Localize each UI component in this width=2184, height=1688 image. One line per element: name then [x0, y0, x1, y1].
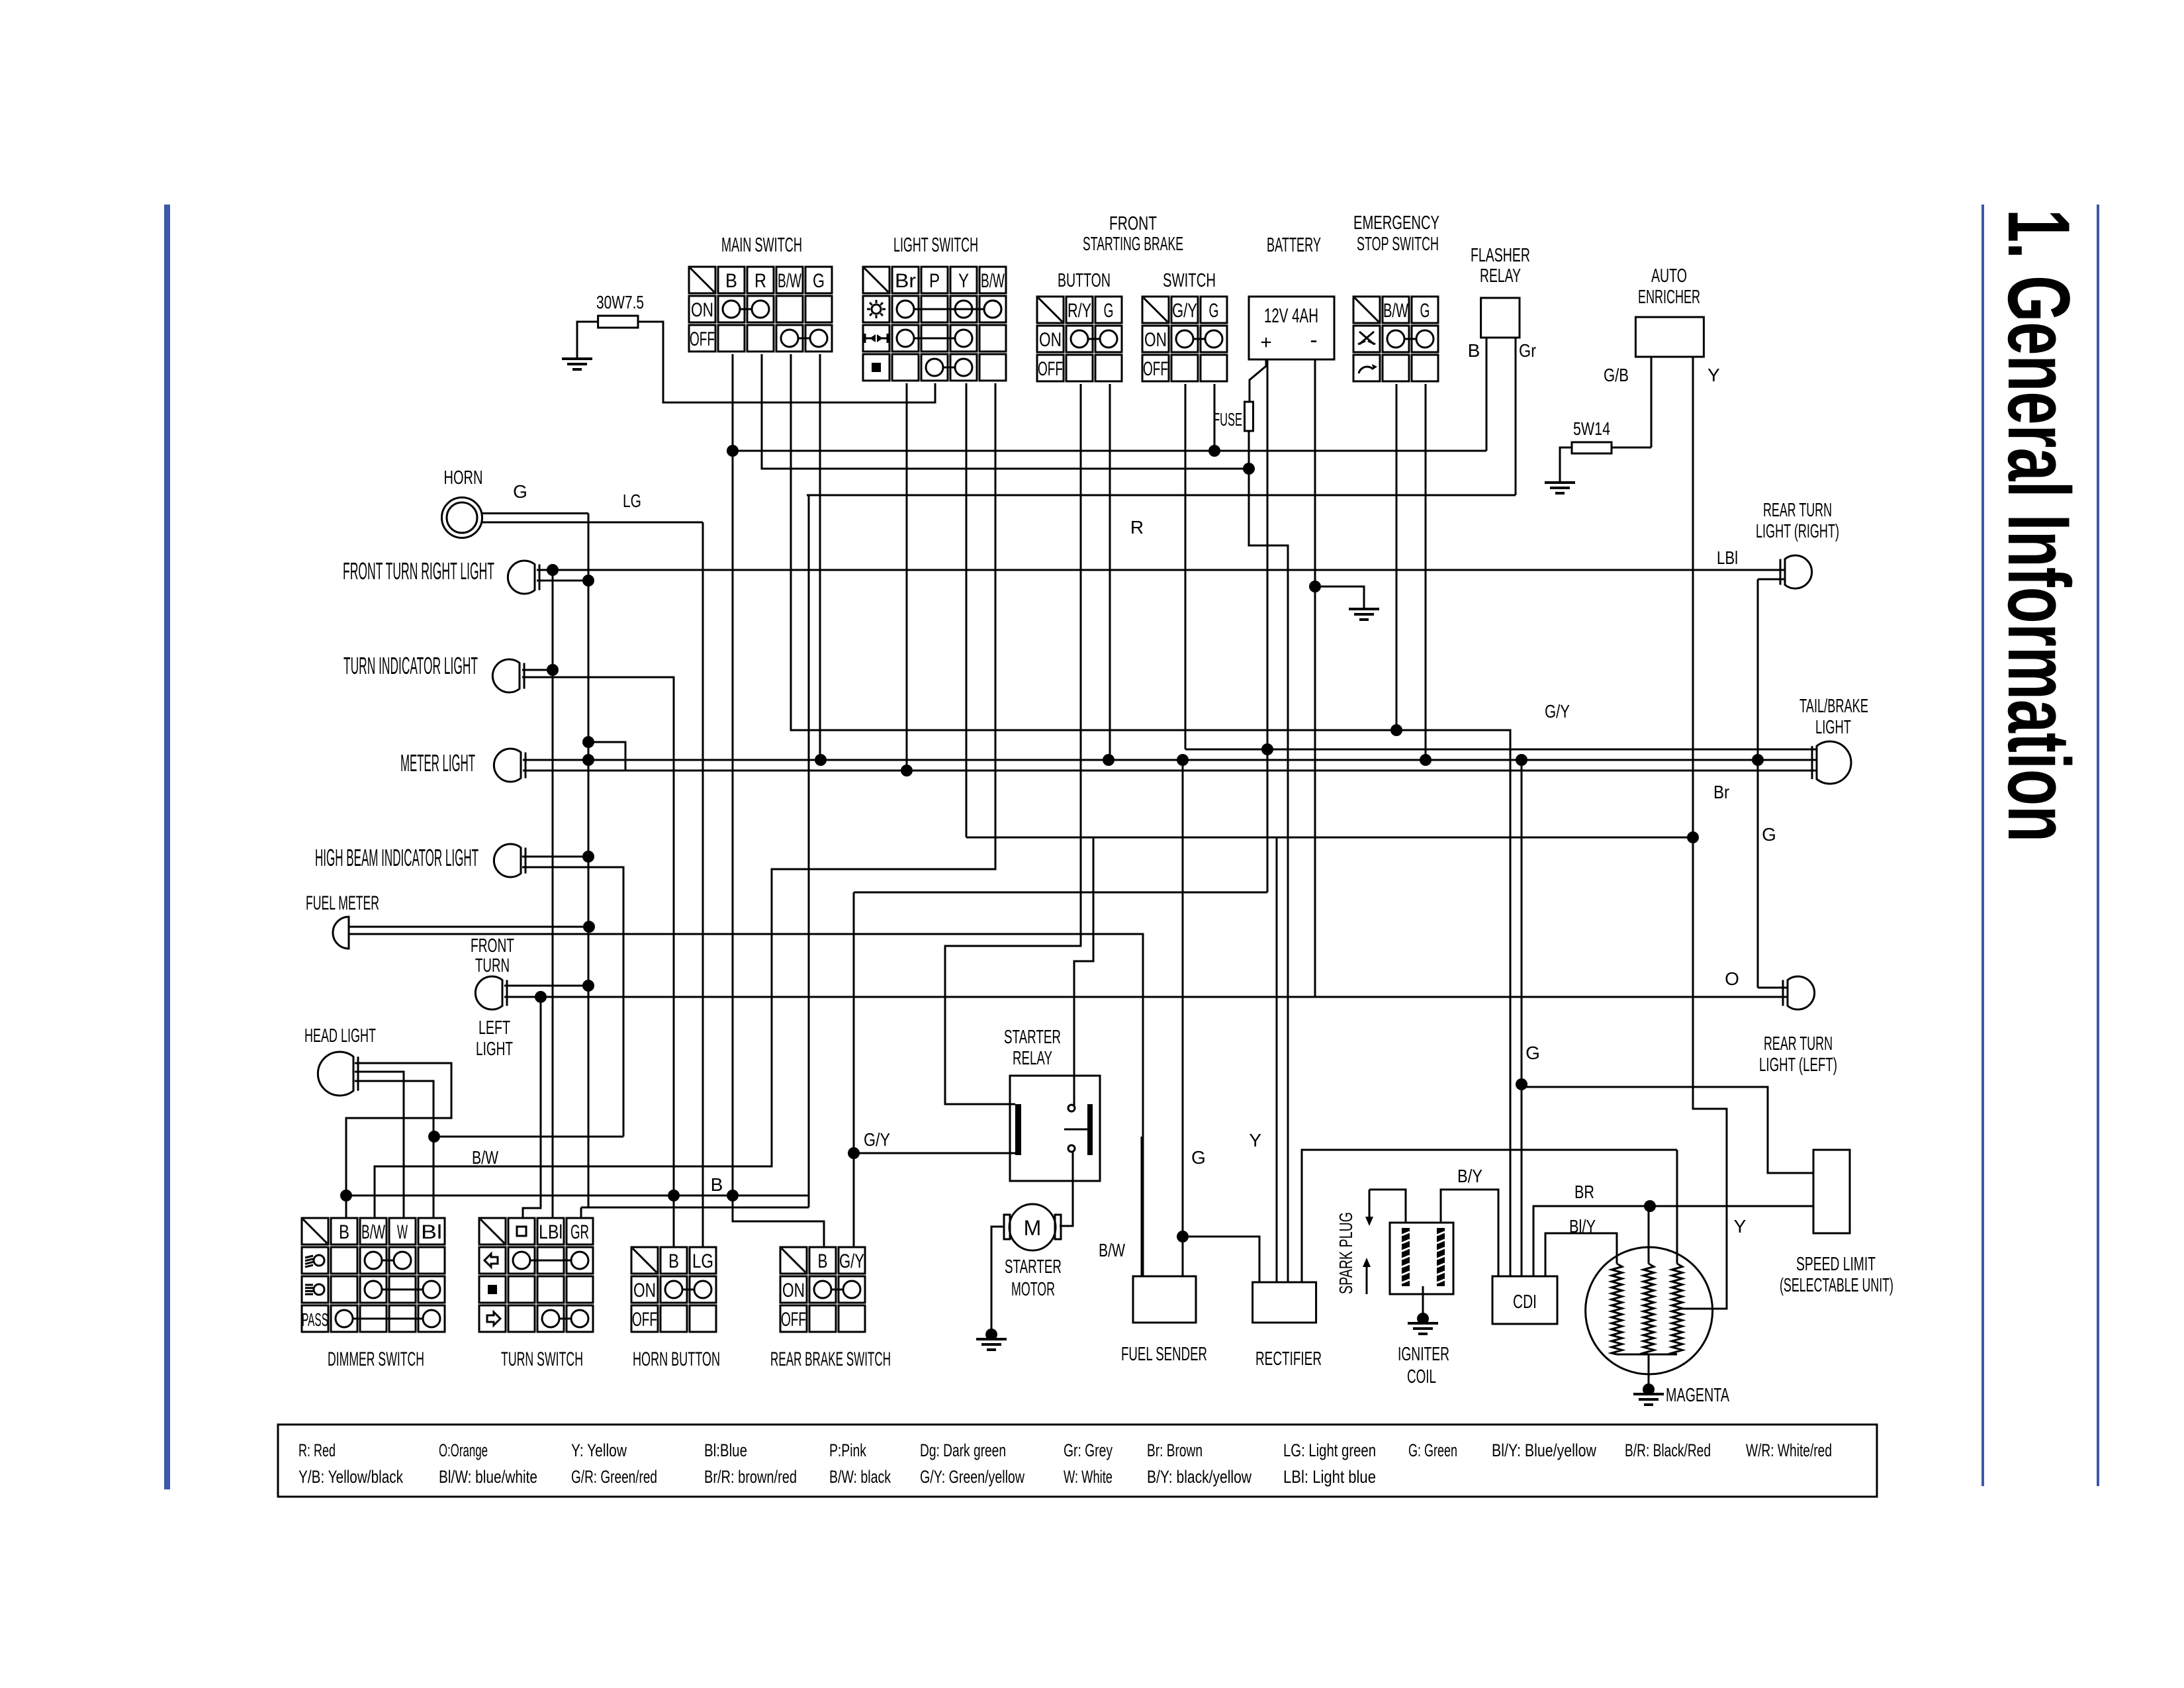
resistor 30W7.5 [598, 316, 638, 328]
svg-text:G: G [1104, 300, 1114, 322]
svg-text:G: Green: G: Green [1408, 1440, 1457, 1460]
wire B/W run to dimmer Bl [434, 1136, 623, 1138]
svg-text:ON: ON [782, 1280, 805, 1301]
svg-text:30W7.5: 30W7.5 [596, 292, 644, 312]
svg-text:FUSE: FUSE [1213, 409, 1242, 430]
wire Y run to rectifier right [1302, 1150, 1677, 1282]
ground at igniter coil [1408, 1322, 1438, 1325]
svg-text:Y: Y [1249, 1130, 1261, 1150]
starter relay box [1010, 1076, 1100, 1181]
starter relay contact bar [1087, 1104, 1093, 1155]
svg-text:+: + [1260, 332, 1272, 353]
svg-text:ON: ON [691, 299, 713, 321]
svg-text:R: R [754, 270, 766, 292]
svg-text:B: B [818, 1250, 828, 1272]
wire 5W14 left to ground [1560, 447, 1572, 481]
igniter coil windings [1402, 1228, 1410, 1286]
head light bulb [318, 1052, 353, 1096]
svg-text:Br: Br [1713, 782, 1729, 802]
wire head light t1 to dimmer B [346, 1063, 451, 1218]
tail brake light bulb [1817, 741, 1851, 784]
ground at starter motor [976, 1338, 1007, 1340]
wire magneto to ground [1648, 1354, 1650, 1389]
wire cdi G with branch [1521, 767, 1523, 1276]
svg-text:O: O [1725, 968, 1739, 989]
svg-text:LBl: Light blue: LBl: Light blue [1283, 1467, 1376, 1487]
wire 30W7.5 right to light switch P column [638, 322, 935, 402]
svg-text:B/W: B/W [1099, 1240, 1125, 1260]
wire head light t3 to dimmer Bl [355, 1081, 433, 1218]
high beam indicator light bulb [494, 844, 521, 877]
svg-text:G/Y: G/Y [1545, 701, 1570, 722]
wire O run [504, 996, 1788, 998]
wire G vertical from horn [588, 514, 590, 1208]
svg-text:LBl: LBl [1717, 547, 1738, 568]
spark gap lower arrow [1366, 1266, 1368, 1294]
wire meter jog [588, 742, 625, 771]
wire emergency G column [1425, 384, 1427, 760]
svg-text:W: W [397, 1221, 408, 1243]
wire battery minus [1314, 359, 1316, 997]
wire turn-feed vertical x1222 [808, 495, 810, 1207]
svg-text:LIGHT (LEFT): LIGHT (LEFT) [1759, 1055, 1837, 1076]
svg-text:HORN: HORN [444, 467, 483, 489]
svg-text:SPEED LIMIT: SPEED LIMIT [1796, 1254, 1876, 1275]
light switch table [863, 267, 889, 293]
svg-text:ON: ON [1039, 329, 1062, 351]
svg-text:Bl: Bl [421, 1221, 442, 1243]
wire button G column [1109, 384, 1111, 760]
wire cdi BR [1533, 1206, 1813, 1276]
svg-text:LG: LG [692, 1250, 713, 1272]
ground at 30W7.5 [562, 357, 592, 360]
svg-text:TAIL/BRAKE: TAIL/BRAKE [1799, 696, 1868, 717]
wire auto enricher Y pin to magneto [1678, 357, 1727, 1309]
svg-text:R/Y: R/Y [1068, 300, 1091, 322]
svg-text:5W14: 5W14 [1573, 418, 1610, 439]
ground at battery [1349, 608, 1379, 610]
wire battery plus diagonal to fuse [1250, 359, 1266, 402]
wire auto enricher G/B pin [1651, 357, 1653, 447]
wire Y to rectifier [1276, 837, 1278, 1282]
legend box [278, 1425, 1877, 1497]
svg-text:R: R [1130, 517, 1144, 538]
svg-text:OFF: OFF [690, 328, 715, 350]
wire igniter primary to spark gap [1369, 1190, 1406, 1223]
wire fuel sender G to rectifier [1183, 1237, 1259, 1282]
svg-text:B/W: B/W [981, 270, 1005, 292]
wire power run H2 [733, 450, 1486, 452]
svg-text:REAR TURN: REAR TURN [1764, 1033, 1833, 1055]
igniter coil box [1390, 1223, 1453, 1294]
horn [442, 498, 482, 538]
horn button table [631, 1247, 658, 1274]
svg-text:Br/R: brown/red: Br/R: brown/red [704, 1467, 797, 1487]
wire igniter secondary B/Y to CDI [1441, 1190, 1498, 1276]
svg-text:P: P [929, 270, 940, 292]
wire turn indicator bottom chain [522, 677, 674, 1247]
svg-text:STARTER: STARTER [1005, 1256, 1062, 1278]
wire 30W7.5 left to ground [577, 322, 598, 357]
wire battery plus to G/Y chain [854, 892, 1267, 894]
turn switch table [479, 1218, 506, 1244]
svg-text:GR: GR [570, 1221, 589, 1243]
wire starter relay contact top feed [1073, 1105, 1075, 1106]
wire GR column drop [580, 1207, 582, 1218]
svg-text:G: G [813, 270, 825, 292]
svg-text:FUEL METER: FUEL METER [306, 892, 379, 914]
starter relay contacts [1068, 1105, 1075, 1111]
svg-text:SPARK PLUG: SPARK PLUG [1336, 1212, 1356, 1294]
svg-text:LBl: LBl [539, 1221, 563, 1243]
svg-text:BR: BR [1574, 1182, 1594, 1202]
svg-text:B/W: B/W [472, 1147, 498, 1168]
wire emergency B/W column [1396, 384, 1398, 730]
wire turn switch square-col chain [504, 997, 541, 1218]
svg-text:G/B: G/B [1604, 365, 1629, 385]
svg-text:G: G [1209, 300, 1219, 322]
rear turn light right bulb [1785, 555, 1812, 588]
wire starter relay contact bottom to motor [1060, 1152, 1073, 1226]
svg-text:FRONT: FRONT [471, 935, 514, 957]
svg-text:LIGHT: LIGHT [476, 1039, 513, 1060]
svg-text:LIGHT SWITCH: LIGHT SWITCH [893, 233, 978, 256]
svg-text:B: B [725, 270, 737, 292]
svg-text:O:Orange: O:Orange [439, 1440, 488, 1460]
svg-text:G/R: Green/red: G/R: Green/red [571, 1467, 657, 1487]
wire igniter to ground [1422, 1286, 1424, 1319]
svg-text:LEFT: LEFT [478, 1017, 510, 1039]
svg-text:ON: ON [1144, 329, 1167, 351]
svg-text:(SELECTABLE UNIT): (SELECTABLE UNIT) [1780, 1275, 1893, 1296]
svg-text:RELAY: RELAY [1013, 1048, 1052, 1069]
wire LBl run front to rear [537, 569, 1784, 571]
fuel meter symbol [333, 917, 349, 949]
svg-text:OFF: OFF [632, 1309, 657, 1331]
left blue sidebar line [164, 205, 170, 1489]
svg-text:B: B [339, 1221, 349, 1243]
wire light switch Br column [906, 383, 908, 771]
wire G to rear turn left [1758, 987, 1787, 989]
svg-text:Y: Y [1734, 1216, 1747, 1237]
svg-text:B/R: Black/Red: B/R: Black/Red [1625, 1440, 1711, 1460]
right blue rule (inner) [1981, 205, 1984, 1486]
svg-text:LG: Light green: LG: Light green [1283, 1440, 1376, 1460]
svg-text:TURN SWITCH: TURN SWITCH [501, 1348, 583, 1370]
svg-text:Y: Yellow: Y: Yellow [571, 1440, 627, 1460]
turn indicator light bulb [492, 659, 520, 692]
svg-text:G: G [1525, 1043, 1540, 1063]
resistor 5W14 [1572, 442, 1612, 453]
svg-text:G/Y: G/Y [839, 1250, 864, 1272]
wire front turn left top stub [504, 985, 588, 987]
svg-text:FUEL SENDER: FUEL SENDER [1121, 1344, 1207, 1365]
wire flasher Gr run [807, 494, 1516, 496]
rear turn light left bulb [1788, 976, 1815, 1009]
wire high beam top stub [522, 856, 588, 858]
svg-text:1. General Information: 1. General Information [1989, 209, 2087, 842]
front turn left light bulb [475, 976, 502, 1009]
svg-text:Bl/Y: Blue/yellow: Bl/Y: Blue/yellow [1492, 1440, 1596, 1460]
wire LG vertical to horn button [702, 522, 704, 1247]
wire battery minus ground branch [1315, 586, 1364, 608]
wire main switch B/W column kill run [791, 354, 1510, 1276]
wire horn G stub [482, 512, 588, 514]
svg-text:RELAY: RELAY [1480, 265, 1521, 287]
svg-text:Dg: Dark green: Dg: Dark green [920, 1440, 1006, 1460]
svg-text:G: G [1420, 300, 1430, 322]
svg-text:SWITCH: SWITCH [1163, 270, 1216, 291]
emergency stop switch table [1353, 297, 1380, 323]
wire cdi B/Y right [1545, 1233, 1617, 1276]
svg-text:REAR BRAKE SWITCH: REAR BRAKE SWITCH [770, 1348, 891, 1370]
svg-text:G/Y: G/Y [864, 1129, 890, 1150]
meter light bulb [494, 749, 521, 782]
svg-text:STOP SWITCH: STOP SWITCH [1357, 234, 1439, 255]
svg-text:G: G [1762, 824, 1776, 845]
wire flasher B pin [1486, 338, 1488, 451]
wire head light t2 to dimmer W [355, 1072, 404, 1218]
svg-text:LG: LG [623, 491, 641, 511]
svg-text:B/W: B/W [1383, 300, 1408, 322]
wire cdi G long [1510, 767, 1512, 1276]
svg-text:PASS: PASS [302, 1309, 328, 1330]
wire G/Y to starter relay coil [854, 1152, 1017, 1154]
front starting brake button table [1037, 297, 1064, 323]
fuel sender box [1133, 1276, 1196, 1323]
battery box [1249, 297, 1334, 359]
svg-text:COIL: COIL [1407, 1366, 1436, 1387]
ground at magneto [1633, 1393, 1664, 1395]
svg-text:Y: Y [1707, 365, 1720, 385]
svg-text:MOTOR: MOTOR [1011, 1279, 1055, 1300]
svg-text:EMERGENCY: EMERGENCY [1353, 212, 1439, 234]
wire speed limit upper feed [1522, 1087, 1813, 1173]
svg-text:P:Pink: P:Pink [829, 1440, 866, 1460]
junction dot igniter ground [1417, 1313, 1429, 1325]
svg-text:W/R: White/red: W/R: White/red [1746, 1440, 1832, 1460]
svg-text:Gr: Grey: Gr: Grey [1064, 1440, 1113, 1460]
wire main switch B column [733, 354, 824, 1247]
spark gap upper arrow [1369, 1190, 1371, 1218]
wire battery plus down [1267, 359, 1269, 892]
svg-text:Bl/W: blue/white: Bl/W: blue/white [439, 1467, 537, 1487]
magneto coils [1612, 1264, 1622, 1354]
wire turn indicator top stub [522, 669, 553, 671]
wire fuel sender B/W pin [1141, 1137, 1143, 1276]
wire fuel meter upper stub [349, 926, 589, 928]
wire rear turn right second terminal [1758, 579, 1784, 581]
svg-text:B/Y: black/yellow: B/Y: black/yellow [1147, 1467, 1251, 1487]
wire GR jog [581, 1207, 809, 1209]
fuse [1245, 402, 1253, 431]
ground at 5W14 [1545, 481, 1575, 484]
svg-text:FLASHER: FLASHER [1471, 245, 1530, 266]
auto enricher box [1635, 317, 1704, 357]
svg-text:ON: ON [633, 1280, 656, 1301]
svg-text:G: G [513, 481, 527, 502]
wire light switch Y column [966, 383, 968, 837]
svg-text:B/W: black: B/W: black [829, 1467, 891, 1487]
wire G run mid [1521, 760, 1523, 1084]
svg-text:STARTER: STARTER [1004, 1027, 1061, 1048]
svg-text:LIGHT (RIGHT): LIGHT (RIGHT) [1756, 521, 1839, 542]
wire switch G column [1214, 384, 1216, 451]
svg-text:Br: Brown: Br: Brown [1147, 1440, 1203, 1460]
svg-text:B: B [711, 1174, 723, 1195]
wire switch G/Y column [1185, 384, 1187, 749]
wire horn LG stub [482, 522, 703, 524]
svg-text:G: G [1191, 1147, 1206, 1168]
svg-text:TURN INDICATOR LIGHT: TURN INDICATOR LIGHT [343, 652, 478, 679]
svg-text:W: White: W: White [1064, 1467, 1113, 1487]
svg-text:12V 4AH: 12V 4AH [1264, 304, 1318, 327]
svg-text:G/Y: Green/yellow: G/Y: Green/yellow [920, 1467, 1024, 1487]
front brake switch table [1142, 297, 1169, 323]
svg-text:REAR TURN: REAR TURN [1763, 500, 1832, 521]
wire fuse chain down to rectifier [1249, 431, 1288, 1282]
wire main switch R column [762, 354, 1249, 469]
wire light switch B/W chain [375, 383, 995, 1218]
cdi box [1492, 1276, 1557, 1324]
wire G run [523, 759, 1816, 761]
wire B run bottom [346, 1195, 809, 1197]
svg-text:B/W: B/W [778, 270, 801, 292]
svg-text:Gr: Gr [1519, 340, 1536, 361]
wire flasher Gr pin [1515, 338, 1517, 495]
main switch table [689, 267, 715, 293]
starter motor [1009, 1204, 1056, 1250]
rectifier box [1253, 1282, 1316, 1323]
svg-text:B: B [668, 1250, 679, 1272]
wire Br run to tail light [523, 770, 1816, 772]
wire front turn right bottom stub [537, 580, 588, 582]
svg-text:FRONT: FRONT [1109, 213, 1157, 234]
svg-text:ENRICHER: ENRICHER [1638, 287, 1700, 308]
svg-text:HIGH BEAM INDICATOR LIGHT: HIGH BEAM INDICATOR LIGHT [315, 844, 478, 871]
svg-text:HORN BUTTON: HORN BUTTON [633, 1348, 720, 1370]
wire LBl vertical [552, 570, 554, 1218]
magneto circle [1586, 1247, 1713, 1374]
svg-text:LIGHT: LIGHT [1815, 717, 1851, 738]
rear brake switch table [780, 1247, 807, 1274]
wire starter motor to ground [991, 1227, 1004, 1335]
svg-text:DIMMER SWITCH: DIMMER SWITCH [328, 1348, 424, 1370]
svg-text:BUTTON: BUTTON [1058, 270, 1111, 291]
wire 5W14 right to G/B [1612, 447, 1651, 449]
wire magneto mid coil up to BR [1648, 1206, 1650, 1264]
speed limit box [1813, 1150, 1850, 1233]
junction dot magneto ground [1643, 1383, 1655, 1395]
svg-text:M: M [1024, 1216, 1042, 1240]
svg-text:IGNITER: IGNITER [1398, 1344, 1449, 1365]
svg-text:OFF: OFF [1038, 358, 1063, 380]
svg-text:OFF: OFF [781, 1309, 806, 1331]
svg-text:TURN: TURN [475, 955, 510, 976]
front turn right light bulb [508, 561, 535, 594]
wire high beam bottom chain [522, 867, 623, 1137]
wire G/Y run [1185, 749, 1816, 751]
svg-text:MAGENTA: MAGENTA [1666, 1385, 1729, 1406]
svg-text:HEAD LIGHT: HEAD LIGHT [304, 1025, 376, 1047]
svg-text:MAIN SWITCH: MAIN SWITCH [721, 233, 802, 256]
svg-text:RECTIFIER: RECTIFIER [1255, 1348, 1322, 1370]
wire G/Y vertical rear brake [853, 892, 855, 1247]
svg-text:-: - [1310, 328, 1317, 353]
dimmer switch table [302, 1218, 328, 1244]
svg-text:Bl:Blue: Bl:Blue [704, 1440, 747, 1460]
starter relay coil bar [1015, 1104, 1021, 1155]
svg-text:B/W: B/W [361, 1221, 385, 1243]
wire Y run [966, 837, 1693, 839]
svg-text:AUTO: AUTO [1651, 265, 1687, 287]
wire fuel sender G pin [1182, 759, 1184, 1276]
wire Y to starter relay contact [1074, 837, 1093, 1105]
wire main switch G column [819, 354, 821, 760]
svg-text:METER LIGHT: METER LIGHT [400, 749, 475, 776]
flasher relay box [1481, 298, 1520, 338]
svg-text:B/Y: B/Y [1457, 1166, 1482, 1186]
right blue rule (outer) [2097, 205, 2099, 1486]
wire fuel meter lower to fuel sender [349, 934, 1143, 1276]
svg-text:Y/B: Yellow/black: Y/B: Yellow/black [298, 1467, 403, 1487]
svg-text:STARTING BRAKE: STARTING BRAKE [1083, 234, 1183, 255]
wire button R/Y chain to relay coil [945, 384, 1081, 1104]
svg-text:Br: Br [895, 270, 916, 292]
svg-text:OFF: OFF [1143, 358, 1168, 380]
svg-text:R: Red: R: Red [298, 1440, 336, 1460]
svg-text:FRONT TURN RIGHT LIGHT: FRONT TURN RIGHT LIGHT [343, 557, 494, 585]
svg-text:BATTERY: BATTERY [1267, 233, 1321, 256]
svg-text:Y: Y [958, 270, 969, 292]
svg-text:G/Y: G/Y [1172, 300, 1197, 322]
wire magneto right coil top to Y run [1676, 1150, 1678, 1264]
svg-text:B: B [1468, 340, 1480, 361]
wire G branch tail [1757, 579, 1759, 988]
junction dots [340, 1190, 352, 1201]
svg-text:CDI: CDI [1513, 1291, 1537, 1313]
junction dot motor ground [985, 1329, 997, 1340]
svg-text:Bl/Y: Bl/Y [1569, 1216, 1596, 1237]
